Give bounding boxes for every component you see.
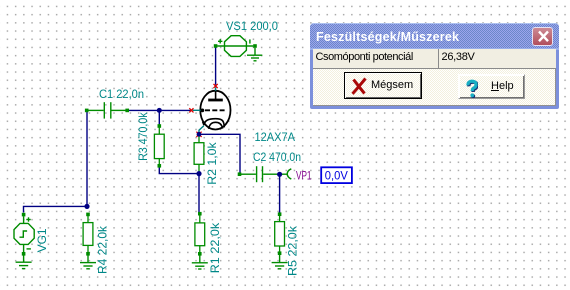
cathode lead <box>203 122 204 125</box>
svg-text:R2 1,0k: R2 1,0k <box>205 141 219 185</box>
svg-text:R5 22,0k: R5 22,0k <box>286 225 300 276</box>
dialog Feszültségek/Műszerek <box>310 23 559 109</box>
tube 12AX7A U1 <box>193 87 231 132</box>
resistor R5 <box>275 215 285 253</box>
svg-text:VS1 200,0: VS1 200,0 <box>226 19 278 33</box>
svg-text:R4 22,0k: R4 22,0k <box>96 225 110 274</box>
node junction C2 out <box>277 172 282 177</box>
svg-text:12AX7A: 12AX7A <box>255 130 296 144</box>
ground VS1 <box>247 48 262 61</box>
capacitor C1 <box>89 102 126 118</box>
cathode outer arc <box>204 119 224 128</box>
wire R2 bottom to R1 <box>198 174 200 213</box>
resistor R4 <box>83 215 93 253</box>
ground R5 <box>272 255 288 269</box>
grid teal stub <box>193 109 201 111</box>
wire node A up to C1 <box>86 110 88 206</box>
pin x grid <box>189 108 193 112</box>
wire R3 bottom to R2 bottom <box>159 167 199 174</box>
grid dot <box>201 109 205 113</box>
svg-text:C1 22,0n: C1 22,0n <box>99 87 144 101</box>
capacitor C2 <box>241 166 288 182</box>
source VG1 <box>14 216 34 252</box>
wire grid node down to R3 <box>158 110 160 125</box>
svg-text:R1 22,0k: R1 22,0k <box>208 222 222 274</box>
node junction cathode <box>197 132 202 137</box>
wire VS1 to plate <box>215 47 217 85</box>
node junction A <box>84 204 89 209</box>
node junction R2 bottom <box>196 171 201 176</box>
pin x cathode <box>196 132 201 137</box>
plate bar <box>208 99 223 102</box>
svg-text:0,0V: 0,0V <box>325 169 348 183</box>
probe VP1 <box>287 169 291 179</box>
plate lead teal stub <box>215 87 217 91</box>
wire C2 node down to R5 <box>279 174 281 213</box>
wire VG1 to node A horizontal <box>24 206 88 212</box>
wire C1 to grid node <box>129 109 191 111</box>
wire cathode to C2 <box>199 134 240 172</box>
grid dashed line <box>205 109 225 111</box>
cathode inner arc <box>209 122 223 129</box>
svg-text:VG1: VG1 <box>35 228 49 252</box>
resistor R1 <box>195 215 205 253</box>
source VS1 <box>217 36 253 57</box>
resistor R3 <box>154 124 164 168</box>
ground R4 <box>80 256 96 269</box>
ground R1 <box>192 256 208 270</box>
meter value box VP1 <box>321 167 352 183</box>
resistor R2 <box>194 135 204 173</box>
plate lead <box>215 91 217 99</box>
svg-text:R3 470,0k: R3 470,0k <box>136 112 150 161</box>
pin x plate <box>214 84 218 88</box>
node junction grid <box>157 108 162 113</box>
ground VG1 <box>16 256 32 269</box>
svg-text:VP1: VP1 <box>296 169 312 183</box>
svg-text:C2 470,0n: C2 470,0n <box>253 150 301 164</box>
